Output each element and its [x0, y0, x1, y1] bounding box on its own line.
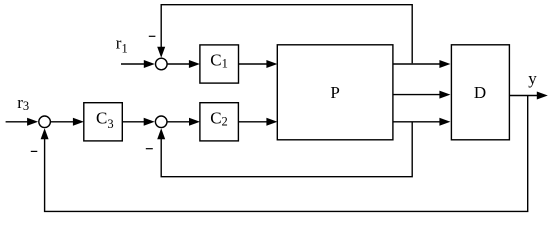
- svg-text:r3: r3: [17, 93, 29, 113]
- block C3: [84, 103, 123, 141]
- arrowhead outer feedback into junction 3: [41, 128, 49, 139]
- wire C1 to P: [239, 63, 269, 65]
- wire junction3 to C3: [50, 121, 75, 123]
- wire top feedback from node between P and D to summing junction 1: [161, 5, 412, 64]
- svg-text:P: P: [330, 83, 339, 102]
- arrowhead r1 into junction 1: [144, 60, 155, 68]
- arrowhead junction2 to C2: [189, 118, 200, 126]
- minus sign at junction 2: [146, 148, 153, 150]
- wire outer feedback from y to summing junction 3: [45, 96, 528, 212]
- wire junction2 to C2: [167, 121, 191, 123]
- wire r3 input: [6, 121, 30, 123]
- minus sign at junction 1: [149, 35, 156, 37]
- wire P output 3 to D: [393, 121, 442, 123]
- wire D output y: [509, 95, 538, 97]
- arrowhead C1 to P: [266, 60, 277, 68]
- block C1: [200, 45, 239, 83]
- arrowhead C2 to P: [266, 118, 277, 126]
- arrowhead output y: [537, 92, 548, 100]
- wire P output 2 to D: [393, 94, 442, 96]
- arrowhead junction3 to C3: [73, 118, 84, 126]
- block D: [451, 45, 509, 140]
- arrowhead top feedback into junction 1: [157, 47, 165, 58]
- arrowhead P output1 into D: [439, 60, 450, 68]
- wire junction1 to C1: [167, 63, 191, 65]
- minus sign at junction 3: [31, 150, 38, 152]
- svg-text:D: D: [474, 83, 486, 102]
- arrowhead r3 into junction 3: [27, 118, 38, 126]
- wire r1 input: [121, 63, 147, 65]
- wire C3 to junction2: [122, 121, 146, 123]
- arrowhead middle feedback into junction 2: [157, 128, 165, 139]
- arrowhead P output2 into D: [439, 91, 450, 99]
- wire middle feedback from P output 3 tap to summing junction 2: [161, 123, 412, 177]
- summing junction 1: [156, 58, 168, 70]
- svg-text:y: y: [528, 69, 537, 88]
- wire C2 to P: [238, 121, 268, 123]
- arrowhead junction1 to C1: [189, 60, 200, 68]
- svg-text:r1: r1: [116, 33, 128, 55]
- arrowhead P output3 into D: [439, 118, 450, 126]
- summing junction 3: [39, 116, 51, 128]
- arrowhead C3 to junction 2: [144, 118, 155, 126]
- block P: [277, 45, 393, 140]
- wire P output 1 to D: [393, 63, 442, 65]
- summing junction 2: [155, 116, 167, 128]
- block C2: [200, 103, 239, 141]
